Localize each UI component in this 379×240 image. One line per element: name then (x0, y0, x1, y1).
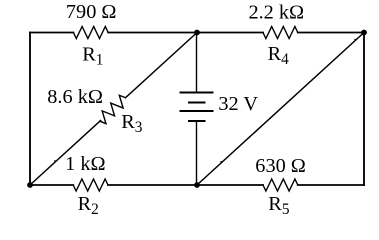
resistor R1 (73, 27, 108, 39)
node bottom-left junction (27, 182, 33, 188)
wire top-middle segment (108, 32, 263, 34)
svg-text:8.6 kΩ: 8.6 kΩ (47, 86, 103, 108)
wire battery top lead (196, 33, 198, 93)
tick mark on right diagonal (lower) (220, 161, 223, 164)
wire battery bottom lead (196, 121, 198, 185)
wire diagonal from bottom-middle node to top-right node (197, 33, 364, 186)
svg-text:2.2 kΩ: 2.2 kΩ (248, 1, 304, 23)
wire bottom-right segment (298, 184, 364, 186)
resistor R2 (73, 179, 108, 191)
svg-text:790 Ω: 790 Ω (66, 1, 117, 23)
wire left edge (29, 33, 31, 186)
node top-middle junction (194, 30, 200, 36)
wire top-left segment (30, 32, 73, 34)
wire diagonal upper lead of R3 (126, 33, 198, 98)
node bottom-middle junction (194, 182, 200, 188)
wire diagonal lower lead of R3 (30, 121, 101, 186)
wire right edge (363, 33, 365, 186)
svg-text:630 Ω: 630 Ω (255, 155, 306, 177)
tick mark on R3 diagonal (54, 160, 57, 163)
svg-text:32 V: 32 V (218, 93, 258, 115)
resistor R5 (263, 179, 298, 191)
resistor R3 (96, 93, 130, 125)
wire bottom-middle segment (108, 184, 263, 186)
tick mark on right diagonal (upper) (354, 39, 357, 42)
battery 32 V (181, 93, 213, 122)
resistor R4 (263, 27, 298, 39)
wire top-right segment (298, 32, 364, 34)
node top-right junction (361, 30, 367, 36)
svg-text:1 kΩ: 1 kΩ (65, 153, 105, 175)
wire bottom-left segment (30, 184, 73, 186)
